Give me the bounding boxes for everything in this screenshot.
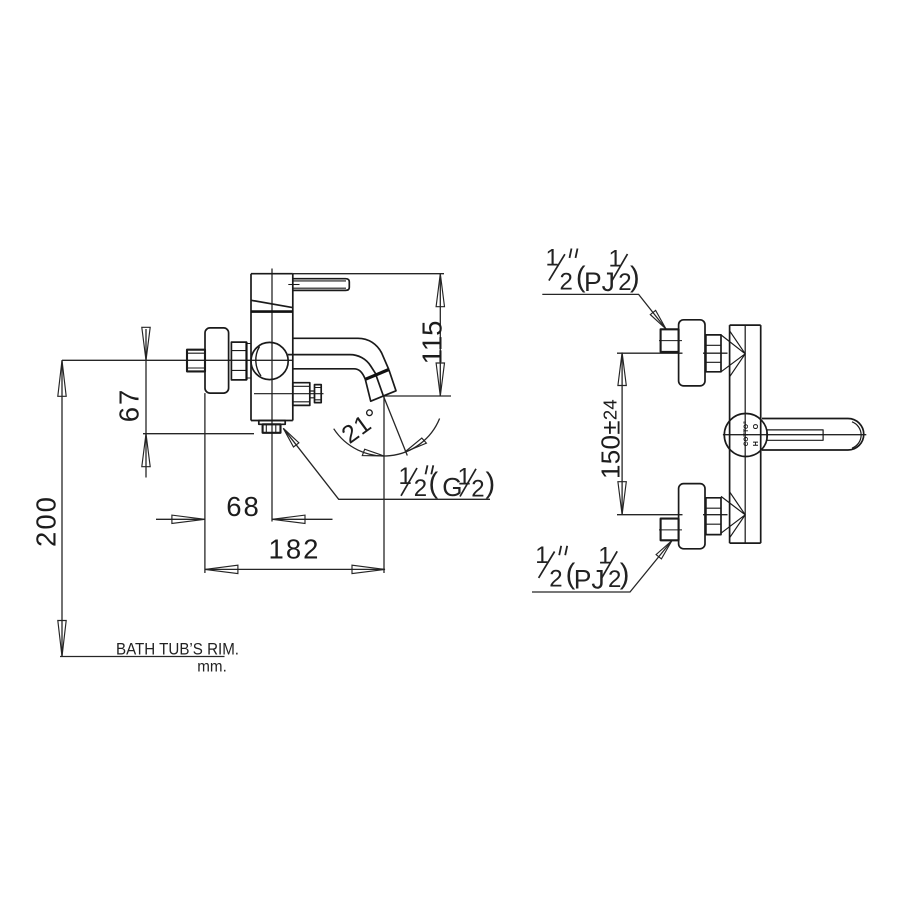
svg-text:115: 115 [417, 321, 448, 365]
svg-text:2: 2 [471, 476, 484, 503]
svg-text:182: 182 [269, 534, 321, 565]
svg-text:1: 1 [458, 464, 471, 491]
svg-text:): ) [486, 468, 496, 500]
svg-text:200: 200 [31, 495, 62, 547]
svg-text:2: 2 [560, 268, 573, 295]
svg-text:mm.: mm. [197, 659, 227, 676]
svg-text:BATH TUB’S RIM.: BATH TUB’S RIM. [116, 640, 239, 659]
svg-text:): ) [630, 261, 640, 293]
svg-text:H: H [753, 441, 760, 446]
svg-text:68: 68 [226, 491, 261, 522]
svg-text:O: O [753, 423, 760, 429]
svg-text:): ) [620, 559, 630, 591]
svg-text:67: 67 [114, 388, 145, 423]
svg-text:COTTO®: COTTO® [742, 421, 750, 446]
svg-text:2: 2 [414, 475, 427, 502]
svg-text:(: ( [429, 468, 439, 500]
svg-text:2: 2 [549, 566, 562, 593]
svg-text:1: 1 [399, 463, 412, 490]
